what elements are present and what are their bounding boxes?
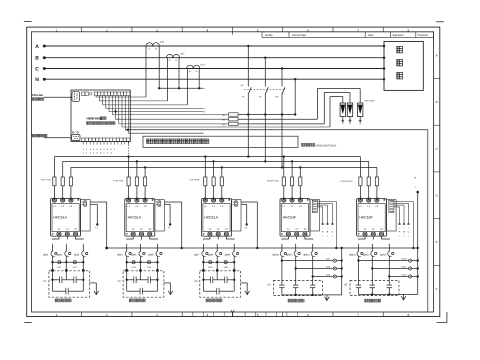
wire module 3 aux leads: [241, 202, 258, 249]
controller aux terminals: [72, 132, 78, 134]
fuse FU14: [367, 177, 370, 186]
svg-text:8: 8: [408, 313, 410, 317]
svg-text:Modify: Modify: [265, 34, 273, 37]
svg-text:4: 4: [206, 28, 208, 32]
lamp LD6: [224, 261, 229, 269]
wire module 1 aux leads: [90, 202, 108, 249]
capacitor enclosure group 2: [123, 271, 164, 297]
svg-text:Checked: Checked: [418, 34, 429, 37]
bus B: [35, 56, 384, 62]
svg-text:A: A: [436, 53, 438, 57]
svg-text:QM12: QM12: [303, 254, 310, 257]
contactor contact QM13: [349, 244, 363, 257]
lamp LD2: [73, 261, 78, 269]
wire feeders group 3: [205, 157, 222, 201]
ground group 2: [164, 283, 173, 295]
capacitor bank C1: [51, 277, 84, 295]
wire T1 to contactor group 4: [282, 236, 289, 239]
breaker H2: [259, 57, 269, 161]
svg-text:3: 3: [156, 313, 158, 317]
wire feeders group 1: [54, 157, 71, 201]
lamp LD1: [57, 261, 62, 269]
svg-text:P232-485: P232-485: [32, 94, 43, 97]
controller terminal row top: [82, 92, 130, 96]
svg-text:B: B: [35, 56, 39, 62]
wire T1 to contactor group 3: [203, 236, 210, 239]
svg-text:n: n: [204, 87, 205, 90]
wire lamp line group 2: [126, 261, 159, 263]
breaker H1: [242, 45, 252, 157]
ground group 1: [90, 283, 99, 295]
wire T3 to contactor group 2: [150, 236, 158, 239]
wire T3 to contactor group 4: [305, 236, 313, 239]
svg-text:Signature: Signature: [393, 34, 405, 37]
wire T2 to contactor group 2: [141, 236, 143, 239]
label P232-485: [32, 94, 44, 100]
svg-text:LD12: LD12: [401, 274, 407, 277]
svg-text:CT3: CT3: [200, 63, 205, 66]
wire T3 to contactor group 1: [76, 236, 84, 239]
module U2 HKC51A: [51, 198, 91, 236]
breaker linkage: [244, 89, 285, 91]
controller U1 HWB-5000 box: [71, 90, 130, 142]
svg-text:QM10: QM10: [273, 254, 280, 257]
svg-text:B: B: [436, 100, 438, 104]
svg-text:4: 4: [206, 313, 208, 317]
svg-text:QM15: QM15: [380, 254, 387, 257]
label group 1 circuit name: [55, 299, 58, 302]
svg-text:C: C: [35, 66, 39, 72]
svg-text:FU10~FU12: FU10~FU12: [267, 180, 280, 183]
wire module 2 aux leads: [164, 202, 183, 249]
svg-text:QM5: QM5: [131, 254, 137, 257]
label group 5 circuit name: [365, 299, 368, 302]
wire capacitor bottom line group 4: [282, 294, 342, 296]
wire controller fan-out stair: [96, 96, 428, 134]
svg-text:QM2: QM2: [57, 254, 63, 257]
label reference drawing no.: [302, 143, 337, 147]
svg-text:E: E: [436, 240, 438, 244]
wire harmonic meter lead: [44, 137, 72, 139]
fuse FU2: [61, 177, 64, 186]
arrester AR2: [347, 103, 352, 124]
lamp LD5: [208, 261, 213, 269]
capacitor enclosure group 4: [273, 280, 322, 295]
wire phase drops group 4: [281, 256, 314, 295]
controller terminal row bottom: [82, 138, 131, 141]
wire rail phase A: [54, 155, 360, 157]
fuse FU6: [144, 177, 147, 186]
contactor contact QM6: [148, 244, 162, 257]
wire lamp line group 1: [51, 261, 84, 263]
svg-text:P1: P1: [169, 59, 171, 62]
wire feeders group 5: [360, 157, 377, 201]
svg-text:2: 2: [106, 28, 108, 32]
wire controller to rail drop (dashed): [128, 142, 130, 157]
capacitor enclosure group 3: [200, 271, 241, 297]
wire capacitor bottom line group 5: [359, 293, 418, 295]
label group 2 circuit name: [129, 299, 132, 302]
lamp LD12: [389, 274, 419, 279]
svg-text:QM4: QM4: [117, 254, 123, 257]
wire JP1 sense line: [238, 113, 296, 115]
load side box: [384, 42, 423, 91]
svg-text:Date: Date: [368, 34, 374, 37]
wire bypass line to arrester AR1: [330, 97, 343, 128]
contactor contact QM7: [194, 244, 208, 257]
svg-text:FU4~FU6: FU4~FU6: [114, 180, 124, 183]
arrester AR1: [340, 103, 345, 124]
svg-text:QM14: QM14: [363, 254, 370, 257]
fuse FU7: [204, 177, 207, 186]
svg-text:QM11: QM11: [286, 254, 293, 257]
contactor contact QM14: [363, 244, 377, 257]
svg-text:CT2: CT2: [180, 53, 185, 56]
svg-text:5: 5: [257, 28, 259, 32]
contactor contact QM11: [286, 244, 300, 257]
contactor contact QM12: [303, 244, 317, 257]
svg-text:HKC51A: HKC51A: [204, 215, 218, 219]
fuse FU13: [359, 177, 362, 186]
svg-text:QM9: QM9: [225, 254, 231, 257]
lamp LD7: [282, 258, 343, 263]
lamp LD3: [132, 261, 137, 269]
wire CT common S2 line: [158, 87, 205, 90]
lamp LD9: [313, 274, 343, 279]
contactor contact QM2: [57, 244, 71, 257]
svg-text:2: 2: [106, 313, 108, 317]
ground group 5: [403, 294, 405, 300]
module U6 HKC53F: [357, 198, 397, 236]
wire T1 to contactor group 1: [53, 236, 60, 239]
connector P2 harmonic meter: [72, 135, 81, 141]
lamp LD10: [359, 258, 419, 263]
bus A: [35, 44, 384, 50]
wire T2 to contactor group 3: [217, 236, 219, 239]
svg-text:HKC51A: HKC51A: [53, 215, 67, 219]
svg-text:P2: P2: [175, 59, 177, 62]
svg-text:FU13~FU15: FU13~FU15: [341, 180, 354, 183]
frame column numbers top: [56, 27, 410, 35]
wire rail phase B: [63, 160, 369, 162]
wire N tap: [294, 78, 296, 115]
contactor contact QM5: [131, 244, 145, 257]
drawing frame inner border: [31, 32, 433, 312]
fuse FU8: [212, 177, 215, 186]
fuse FU9: [220, 177, 223, 186]
note box: [143, 136, 298, 147]
svg-text:HKC53F: HKC53F: [283, 215, 296, 219]
wire phase drops group 5: [357, 256, 390, 295]
drawing frame outer border: [27, 27, 440, 316]
wire phase drops group 1: [51, 256, 84, 292]
label group 4 circuit name: [288, 299, 291, 302]
current transformer CT1: [146, 41, 165, 97]
svg-text:P1: P1: [189, 70, 191, 73]
node bus taps to load box: [383, 45, 386, 81]
svg-text:QM6: QM6: [148, 254, 154, 257]
contactor contact QM9: [225, 244, 239, 257]
wire RS232 lead: [44, 96, 72, 98]
capacitor enclosure group 5: [350, 280, 399, 295]
module U3 HKC51A: [125, 198, 165, 236]
capacitor bank C5: [356, 285, 392, 288]
current transformer CT2: [166, 53, 185, 101]
wire phase drops group 2: [125, 256, 158, 292]
label harmonic meter: [32, 134, 34, 137]
wire T3 to contactor group 5: [382, 236, 390, 239]
svg-text:QM1: QM1: [43, 254, 49, 257]
fuse FU1: [53, 177, 56, 186]
frame row letters right: [434, 53, 440, 291]
svg-text:5: 5: [257, 313, 259, 317]
fuse FU4: [127, 177, 130, 186]
fuse FU15: [375, 177, 378, 186]
svg-text:Record date: Record date: [292, 34, 307, 37]
svg-text:HWB-5000: HWB-5000: [87, 117, 103, 121]
current transformer CT3: [187, 63, 206, 105]
wire T3 to contactor group 3: [226, 236, 234, 239]
svg-text:QM3: QM3: [74, 254, 80, 257]
contactor contact QM10: [273, 244, 287, 257]
wire lamp line group 3: [202, 261, 235, 263]
capacitor bank C3: [202, 277, 235, 295]
wire feeders group 4: [284, 157, 301, 201]
contactor contact QM3: [74, 244, 88, 257]
svg-text:QM8: QM8: [208, 254, 214, 257]
svg-text:P2: P2: [155, 47, 157, 50]
svg-text:LD11: LD11: [401, 266, 407, 269]
svg-text:FU7~FU9: FU7~FU9: [190, 179, 200, 182]
svg-text:1: 1: [56, 313, 58, 317]
title strip (Modify / Record date / Date / Signature / Checked): [262, 32, 434, 38]
svg-text:CPG20150723002: CPG20150723002: [316, 144, 337, 147]
wire T1 to contactor group 2: [127, 236, 134, 239]
svg-text:AR1~AR3: AR1~AR3: [365, 100, 376, 103]
fuse FU11: [291, 177, 294, 186]
svg-text:QM7: QM7: [194, 254, 200, 257]
svg-text:1: 1: [56, 28, 58, 32]
wire control bus: [105, 247, 417, 250]
contactor contact QM15: [380, 244, 394, 257]
svg-text:CT1: CT1: [160, 41, 165, 44]
wire JP2 sense line to arrester AR2: [238, 89, 360, 120]
wire T1 to contactor group 5: [359, 236, 366, 239]
wire T2 to contactor group 5: [372, 236, 374, 239]
fuse JP1: [222, 113, 238, 117]
label HWB-5000 series: [87, 117, 116, 125]
lamp LD8: [296, 266, 343, 271]
wire module 4 fan-out: [317, 202, 337, 250]
wire JP3 sense line to arrester AR3: [238, 93, 350, 124]
label group 3 circuit name: [206, 299, 209, 302]
svg-text:A: A: [35, 44, 39, 50]
lamp LD4: [147, 261, 152, 269]
svg-text:F: F: [436, 287, 438, 291]
wire earth line: [427, 130, 429, 312]
wire rail phase C: [71, 166, 377, 168]
capacitor bank C4: [279, 285, 315, 288]
frame column numbers bottom: [56, 310, 410, 317]
wire T2 to contactor group 4: [296, 236, 298, 239]
svg-text:N: N: [35, 77, 39, 83]
wire module 5 fan-out: [394, 202, 415, 250]
bus C: [35, 66, 384, 72]
ground group 3: [241, 283, 250, 295]
wire phase drops group 3: [202, 256, 235, 292]
breaker H3: [276, 67, 286, 167]
svg-text:HKC51A: HKC51A: [128, 215, 142, 219]
controller bottom pin stubs and numbers: [83, 142, 129, 155]
wire lamp bus group 5: [415, 176, 419, 295]
fuse FU12: [299, 177, 302, 186]
svg-text:P2: P2: [196, 70, 198, 73]
fuse JP3: [222, 122, 238, 126]
capacitor enclosure group 1: [49, 271, 90, 297]
corner register marks: [24, 22, 447, 323]
wire lamp bus group 4: [341, 247, 343, 295]
svg-text:7: 7: [357, 313, 359, 317]
fuse FU5: [135, 177, 138, 186]
contactor contact QM4: [117, 244, 131, 257]
module U4 HKC51A: [202, 198, 242, 236]
capacitor bank C2: [126, 277, 159, 295]
svg-text:6: 6: [307, 313, 309, 317]
contactor contact QM1: [43, 244, 57, 257]
bus N: [35, 77, 384, 83]
ground group 4: [326, 295, 328, 301]
module U5 HKC53F: [280, 198, 320, 236]
wire feeders group 2: [129, 157, 146, 201]
fuse JP2: [222, 118, 238, 122]
lamp LD11: [372, 266, 419, 271]
connector P1 RS232-485: [72, 91, 80, 101]
svg-text:P1: P1: [148, 47, 150, 50]
contactor contact QM8: [208, 244, 222, 257]
svg-text:FU1~FU3: FU1~FU3: [41, 179, 51, 182]
svg-text:HKC53F: HKC53F: [359, 215, 372, 219]
arrester AR3: [358, 103, 363, 124]
svg-text:3: 3: [156, 28, 158, 32]
wire T2 to contactor group 1: [66, 236, 68, 239]
svg-text:QM13: QM13: [349, 254, 356, 257]
fuse FU3: [69, 177, 72, 186]
fuse FU10: [282, 177, 285, 186]
svg-text:LD10: LD10: [401, 258, 407, 261]
